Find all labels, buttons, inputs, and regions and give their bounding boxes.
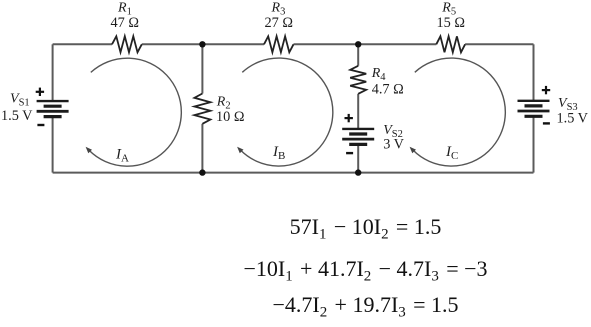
svg-text:57I1 − 10I2 = 1.5: 57I1 − 10I2 = 1.5 bbox=[290, 214, 442, 243]
svg-text:1.5 V: 1.5 V bbox=[1, 108, 33, 124]
svg-text:−4.7I2 + 19.7I3 = 1.5: −4.7I2 + 19.7I3 = 1.5 bbox=[272, 292, 458, 321]
svg-text:47 Ω: 47 Ω bbox=[111, 15, 140, 31]
svg-text:15 Ω: 15 Ω bbox=[437, 15, 466, 31]
svg-text:10 Ω: 10 Ω bbox=[216, 109, 245, 125]
svg-text:3 V: 3 V bbox=[383, 137, 404, 153]
svg-text:4.7 Ω: 4.7 Ω bbox=[372, 82, 404, 98]
svg-text:1.5 V: 1.5 V bbox=[557, 111, 589, 127]
svg-text:27 Ω: 27 Ω bbox=[265, 15, 294, 31]
